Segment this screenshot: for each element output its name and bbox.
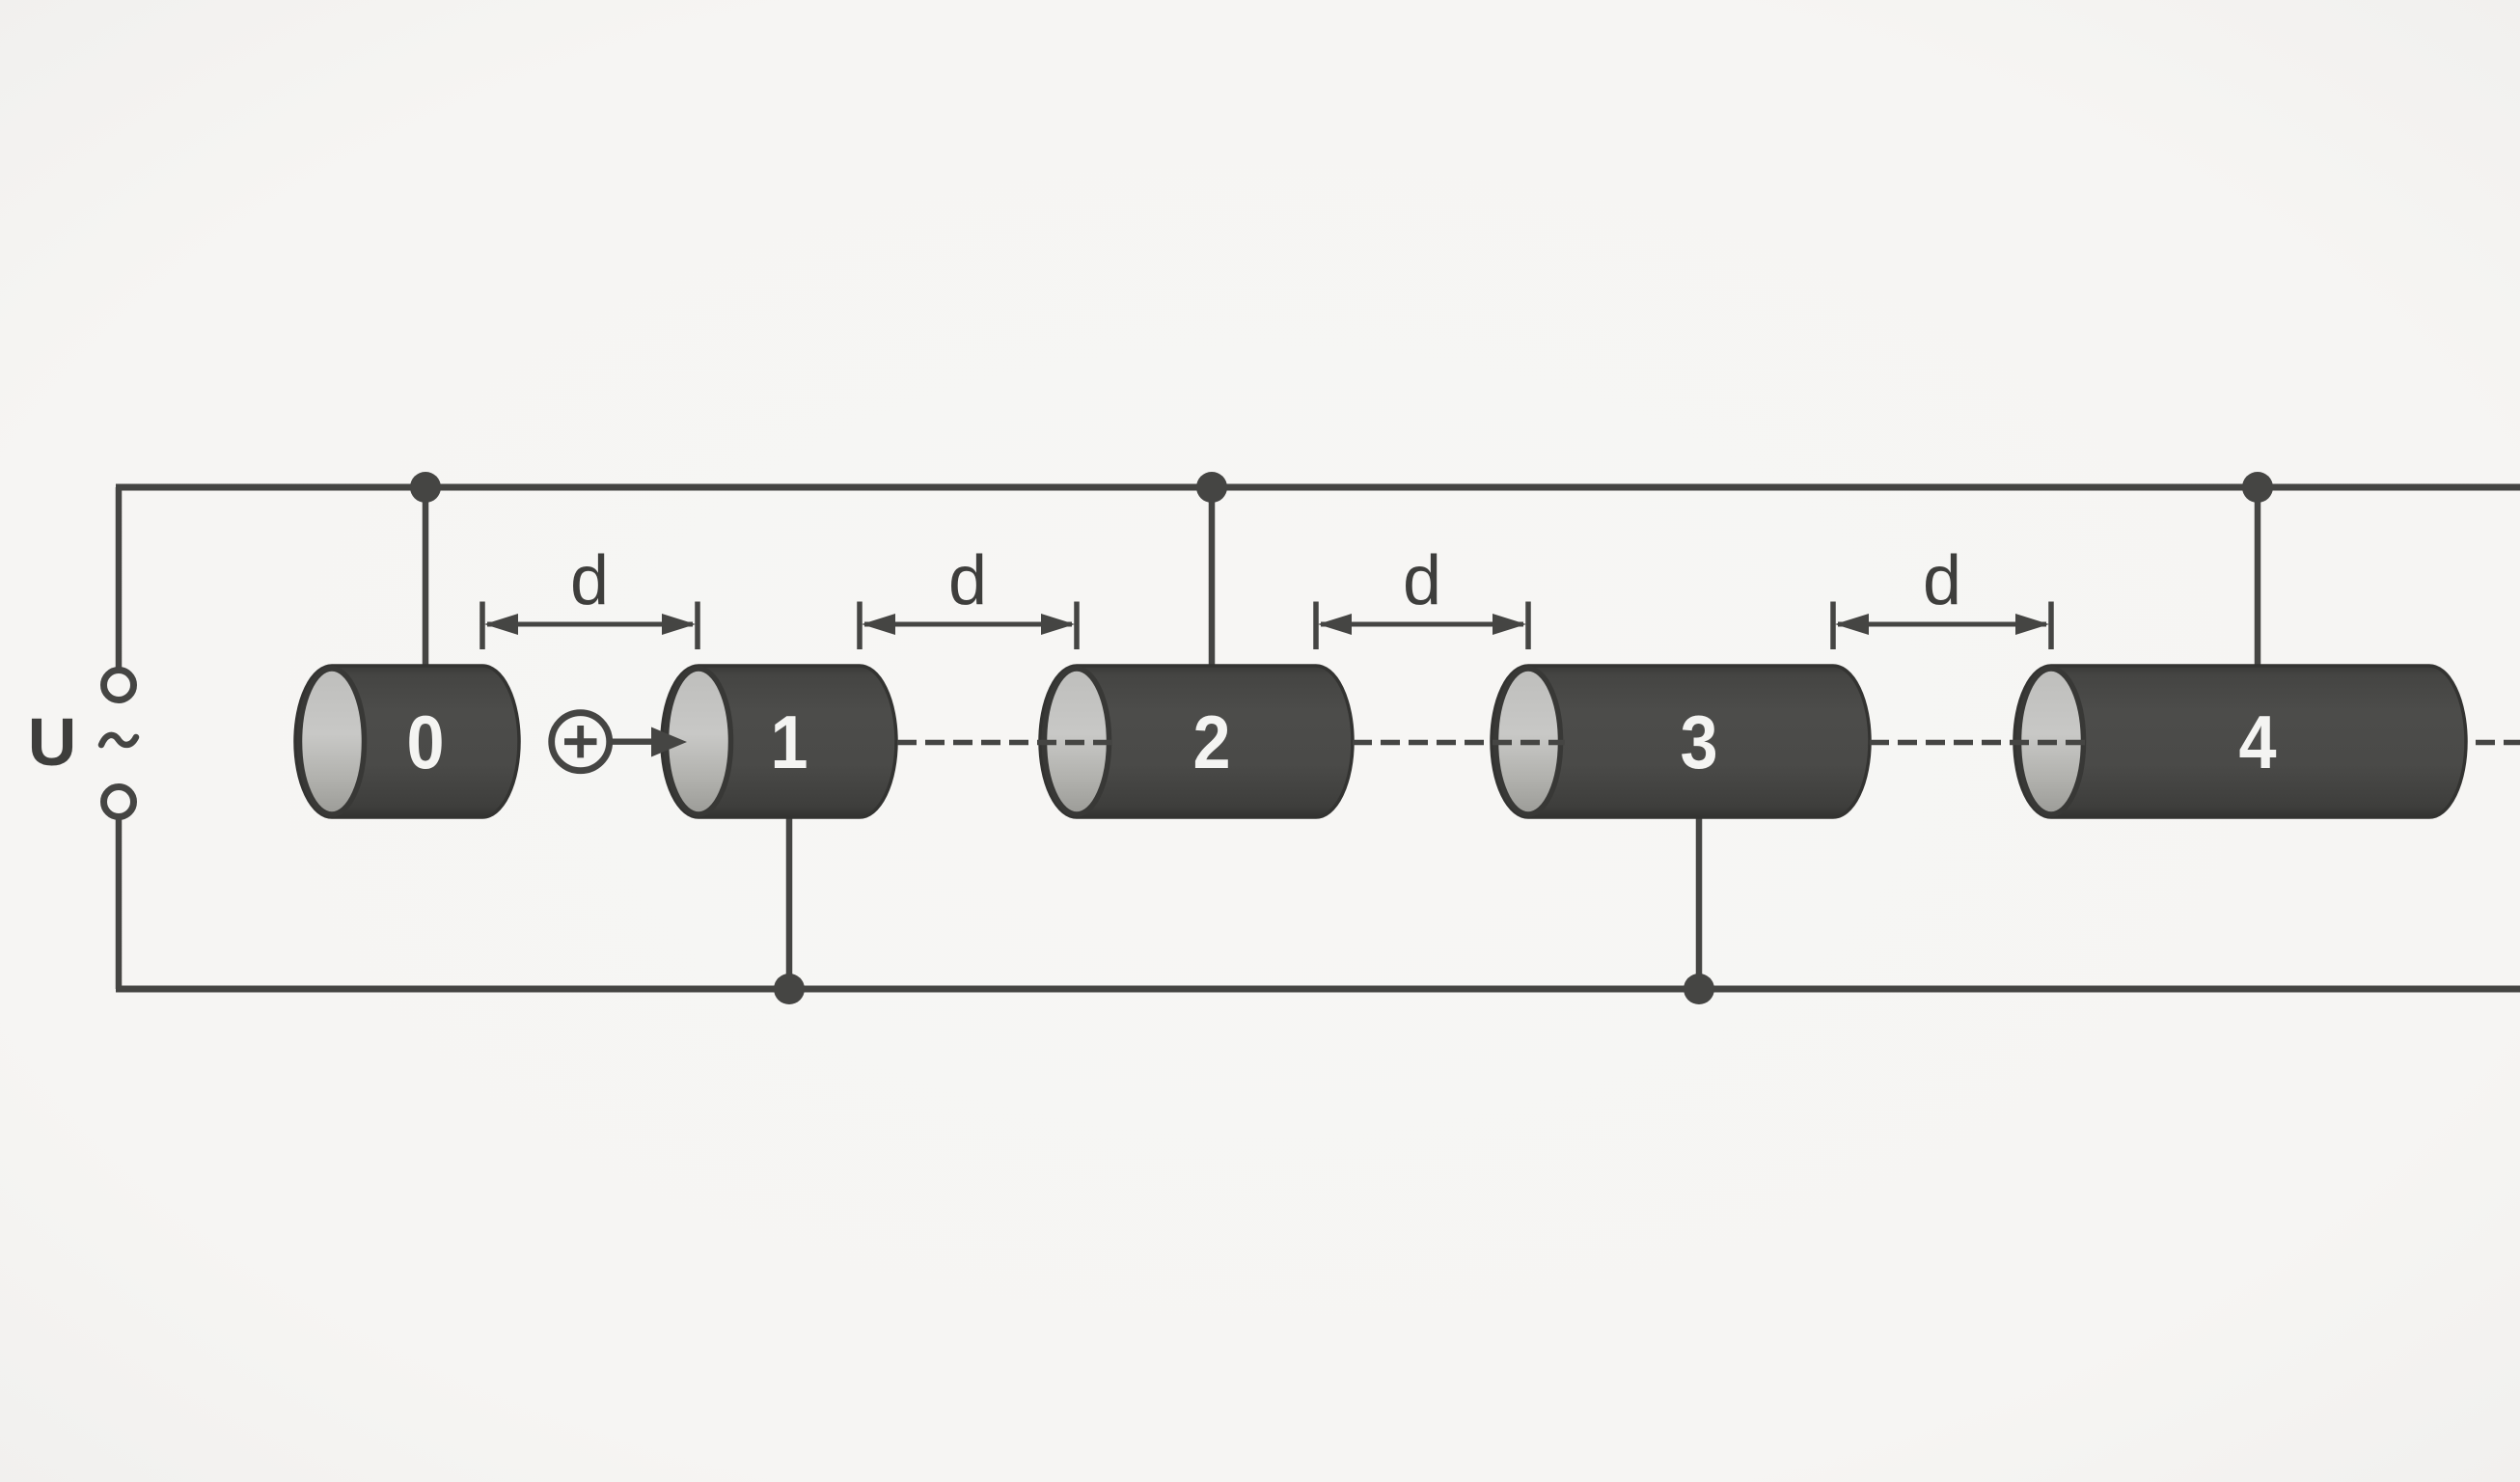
- dimension arrow d (tube 1 - tube 2): [860, 602, 1077, 650]
- junction dot (top bus / tube 4): [2242, 472, 2273, 503]
- junction dot (top bus / tube 0): [410, 472, 441, 503]
- svg-text:d: d: [570, 542, 609, 619]
- drift tube 1: [662, 666, 896, 817]
- beam axis dashed (tube 3 to tube 4): [1870, 740, 2088, 746]
- wire: tube 1 to bottom bus: [786, 813, 793, 989]
- drift tube 3: [1492, 666, 1870, 817]
- svg-text:U: U: [28, 704, 77, 780]
- AC sine symbol ~: [101, 735, 136, 745]
- wire: tube 0 to top bus: [423, 487, 429, 670]
- AC source terminal (bottom): [104, 787, 134, 817]
- svg-text:d: d: [948, 542, 987, 619]
- svg-text:2: 2: [1192, 700, 1230, 784]
- drift tube 2: [1040, 666, 1353, 817]
- wire: tube 4 to top bus: [2255, 487, 2261, 670]
- ion source (circled plus): [552, 713, 610, 771]
- junction dot (bottom bus / tube 3): [1684, 974, 1714, 1004]
- dimension arrow d (tube 0 - tube 1): [482, 602, 698, 650]
- beam axis dashed (tube 2 to tube 3): [1353, 740, 1565, 746]
- drift tube 0: [295, 666, 519, 817]
- top bus wire: [116, 484, 2520, 491]
- svg-text:d: d: [1403, 542, 1441, 619]
- dimension arrow d (tube 3 - tube 4): [1833, 602, 2051, 650]
- svg-text:d: d: [1923, 542, 1961, 619]
- junction dot (bottom bus / tube 1): [774, 974, 805, 1004]
- svg-text:1: 1: [770, 700, 808, 784]
- wire: left branch lower (source to bottom bus): [116, 817, 123, 989]
- ion injection arrow: [610, 727, 687, 757]
- svg-text:3: 3: [1680, 700, 1717, 784]
- wire: tube 2 to top bus: [1209, 487, 1216, 670]
- svg-text:0: 0: [406, 700, 444, 784]
- beam axis dashed (tube 1 to tube 2): [897, 740, 1113, 746]
- beam axis dashed (after tube 4): [2476, 740, 2520, 746]
- junction dot (top bus / tube 2): [1196, 472, 1227, 503]
- AC source terminal (top): [104, 671, 134, 700]
- dimension arrow d (tube 2 - tube 3): [1316, 602, 1528, 650]
- svg-text:4: 4: [2238, 700, 2276, 784]
- wire: left branch upper (source to top bus): [116, 487, 123, 670]
- bottom bus wire: [116, 986, 2520, 993]
- wire: tube 3 to bottom bus: [1696, 813, 1703, 989]
- drift tube 4: [2014, 666, 2466, 817]
